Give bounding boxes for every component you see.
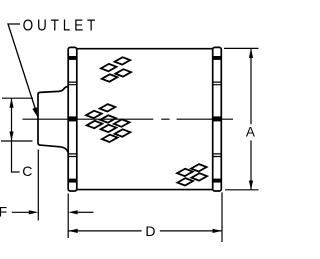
svg-text:A: A bbox=[246, 125, 255, 140]
svg-text:C: C bbox=[22, 163, 32, 179]
svg-text:F: F bbox=[0, 204, 7, 220]
svg-text:D: D bbox=[145, 223, 155, 239]
svg-text:OUTLET: OUTLET bbox=[23, 17, 100, 34]
